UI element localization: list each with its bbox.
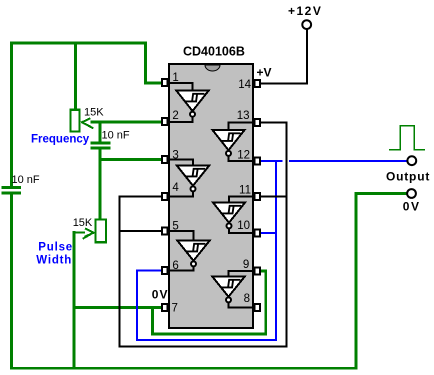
pin 3 stub — [162, 156, 168, 163]
wire green: pin7 ground line — [74, 306, 161, 309]
svg-text:15K: 15K — [84, 107, 104, 119]
resistor VR1 15K Frequency pot body — [71, 110, 80, 132]
pin 14 stub — [255, 80, 261, 87]
svg-text:4: 4 — [172, 182, 179, 194]
pin 4 stub — [162, 193, 168, 200]
node VR2 wiper arrow — [74, 229, 94, 238]
op-amp gate D output wire to pin10 — [229, 229, 254, 233]
wire blue: pin10 line — [261, 232, 276, 234]
pin 10 stub — [255, 230, 261, 237]
op-amp gate A triangle — [176, 91, 208, 112]
op-amp gate B output bubble — [226, 151, 231, 156]
pin 8 stub — [255, 304, 261, 311]
pin 7 stub — [162, 304, 168, 311]
wire black: pin13 line — [261, 122, 287, 124]
svg-text:7: 7 — [172, 303, 178, 315]
capacitor C1 10nF bottom plate — [3, 192, 20, 195]
wire green: bottom ground rail — [12, 367, 357, 370]
wire green: left vertical from top rail down to C1 — [10, 43, 13, 187]
svg-text:Output: Output — [386, 170, 430, 184]
op-amp gate B triangle — [213, 130, 245, 150]
terminal +12V — [302, 20, 311, 29]
op-amp gate F hysteresis glyph — [222, 280, 239, 288]
wire green: pin2 to VR1 wiper — [92, 121, 161, 124]
op-amp gate B (pins 13-12) input wire — [229, 123, 255, 131]
wire green: pin1 net top rail — [12, 42, 146, 45]
wire black: pin4 line — [120, 196, 162, 198]
op-amp gate E (pins 5-6) input wire — [168, 231, 194, 241]
wire black: right vertical up to pin13 — [286, 123, 288, 347]
wire green: C2 bottom down to pot VR2 top — [99, 150, 102, 219]
op-amp gate B hysteresis glyph — [222, 133, 239, 141]
op-amp gate C output bubble — [191, 186, 196, 191]
wire black: under-chip rail to pin13 — [120, 346, 287, 348]
svg-text:3: 3 — [172, 150, 178, 162]
wire green: pin9 to under-chip ground loop to pin7 line — [153, 271, 266, 334]
svg-text:Pulse: Pulse — [38, 242, 73, 254]
wire green: pin3 line — [100, 158, 161, 161]
op-amp gate C hysteresis glyph — [187, 169, 204, 177]
wire blue: pin12 output segment left of crossing — [261, 160, 282, 162]
pin 13 stub — [255, 119, 261, 126]
wire blue: pin6 line — [137, 270, 161, 272]
pin 6 stub — [162, 267, 168, 274]
op-amp gate E output wire to pin6 — [168, 267, 194, 270]
svg-text:12: 12 — [237, 150, 250, 162]
pin 11 stub — [255, 193, 261, 200]
svg-text:6: 6 — [172, 260, 178, 272]
op-amp gate D (pins 11-10) input wire — [229, 197, 254, 203]
wire green: C1 bottom to ground rail — [10, 195, 13, 369]
capacitor C2 10nF bottom plate — [92, 147, 109, 150]
capacitor C2 10nF top plate — [92, 142, 109, 145]
wire green: top rail down to pot VR1 — [74, 43, 77, 109]
IC U1 CD40106B body — [169, 64, 253, 328]
pin 2 stub — [162, 118, 168, 125]
wire blue: up to pin6 — [136, 271, 138, 341]
op-amp gate D output bubble — [227, 223, 232, 228]
terminal Output — [407, 156, 416, 165]
node output pulse waveform symbol — [390, 126, 425, 150]
op-amp gate E output bubble — [191, 261, 196, 266]
pin 5 stub — [162, 228, 168, 235]
svg-text:10: 10 — [237, 220, 250, 232]
svg-text:0V: 0V — [403, 200, 421, 214]
wire blue: vertical joining pins 12,10,6 — [275, 161, 277, 340]
op-amp gate A output bubble — [190, 112, 195, 117]
pin 1 stub — [162, 79, 168, 86]
svg-text:CD40106B: CD40106B — [183, 45, 245, 59]
wire blue: under-chip rail — [137, 339, 276, 341]
op-amp gate A hysteresis glyph — [186, 94, 203, 102]
svg-text:0V: 0V — [152, 288, 169, 302]
svg-text:Width: Width — [36, 255, 72, 267]
op-amp gate C (pins 3-4) input wire — [168, 160, 193, 166]
capacitor C1 10nF top plate — [3, 186, 20, 189]
node VR1 wiper arrow — [82, 119, 93, 128]
wire black: pin5 line — [120, 230, 162, 232]
svg-text:10 nF: 10 nF — [12, 174, 40, 186]
op-amp gate C output wire to pin4 — [168, 192, 193, 196]
wire green: wiper line down to C2 — [99, 122, 102, 142]
op-amp gate A output wire to pin2 — [168, 117, 193, 122]
op-amp gate F (pins 9-8) input wire — [229, 271, 255, 277]
op-amp gate E triangle — [177, 241, 209, 261]
IC U1 notch — [205, 65, 220, 71]
svg-text:+V: +V — [257, 66, 272, 80]
wire green: top rail corner down to pin1 — [146, 43, 162, 83]
wire black: pin11 line — [261, 196, 287, 198]
op-amp gate C triangle — [177, 166, 209, 186]
op-amp gate B output wire to pin12 — [229, 157, 255, 161]
op-amp gate D triangle — [213, 203, 245, 223]
resistor VR2 15K Pulse Width pot body — [96, 219, 106, 242]
svg-text:8: 8 — [244, 293, 250, 305]
wire black: +12V terminal down to pin14 — [261, 30, 307, 84]
svg-text:+12V: +12V — [288, 4, 322, 18]
svg-text:13: 13 — [237, 110, 250, 122]
op-amp gate E hysteresis glyph — [187, 244, 204, 252]
svg-text:1: 1 — [172, 72, 178, 84]
svg-text:9: 9 — [243, 259, 249, 271]
op-amp gate D hysteresis glyph — [223, 206, 240, 214]
pin 12 stub — [255, 158, 261, 165]
svg-text:10 nF: 10 nF — [102, 130, 130, 142]
wire green: VR2 wiper down to ground rail — [73, 232, 76, 368]
terminal 0V — [407, 189, 416, 198]
svg-text:5: 5 — [172, 221, 178, 233]
wire blue: output line right of crossing to Output terminal — [290, 160, 407, 162]
svg-text:Frequency: Frequency — [31, 134, 90, 146]
op-amp gate F triangle — [212, 277, 244, 297]
svg-text:2: 2 — [172, 110, 178, 122]
wire black: pin4/5 vertical — [119, 197, 121, 347]
op-amp gate F output bubble — [226, 297, 231, 302]
svg-text:14: 14 — [238, 79, 251, 91]
svg-text:11: 11 — [239, 185, 251, 197]
wire green: 0V terminal to ground rail — [356, 194, 407, 369]
op-amp gate A (pins 1-2) input wire — [168, 83, 193, 91]
pin 9 stub — [255, 268, 261, 275]
svg-text:15K: 15K — [73, 217, 93, 229]
op-amp gate F output wire to pin8 — [229, 303, 255, 307]
